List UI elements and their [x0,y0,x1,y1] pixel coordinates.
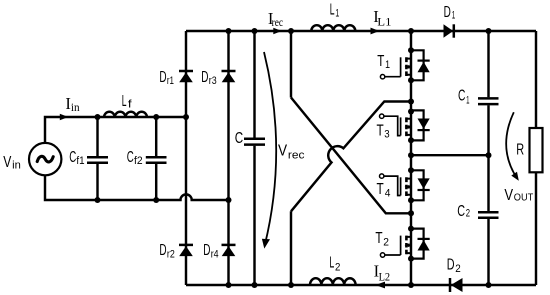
svg-text:r4: r4 [211,249,219,261]
svg-text:2: 2 [335,261,340,273]
svg-text:in: in [12,160,21,172]
svg-text:T: T [377,123,384,140]
svg-text:f1: f1 [76,155,84,167]
svg-text:r2: r2 [167,249,175,261]
svg-text:V: V [3,154,11,171]
svg-text:1: 1 [335,8,339,20]
svg-text:4: 4 [385,187,391,199]
svg-text:L: L [122,93,127,110]
svg-text:T: T [377,181,384,198]
svg-text:1: 1 [466,95,469,107]
svg-text:L1: L1 [377,17,391,29]
svg-text:3: 3 [384,129,389,141]
svg-text:D: D [201,69,208,86]
svg-text:D: D [447,256,455,273]
svg-text:C: C [458,88,465,105]
svg-text:rec: rec [288,149,305,161]
svg-text:f: f [128,98,133,110]
svg-text:D: D [444,4,451,21]
svg-text:T: T [377,53,384,70]
svg-text:R: R [516,142,524,159]
svg-text:r3: r3 [209,75,217,87]
svg-text:2: 2 [455,263,461,275]
svg-text:L: L [330,2,335,19]
svg-text:L2: L2 [379,271,391,283]
svg-text:L: L [329,255,334,272]
svg-text:rec: rec [272,17,283,29]
svg-text:T: T [375,230,382,247]
svg-text:2: 2 [466,208,470,220]
svg-text:C: C [69,149,76,166]
svg-text:r1: r1 [167,75,174,87]
svg-text:C: C [235,130,243,147]
svg-text:V: V [278,143,287,160]
svg-text:D: D [203,242,210,259]
svg-text:in: in [71,102,80,114]
svg-text:OUT: OUT [514,193,534,204]
svg-text:1: 1 [452,9,456,21]
svg-text:1: 1 [385,59,390,71]
svg-text:2: 2 [383,237,389,249]
svg-text:V: V [504,187,513,204]
svg-text:D: D [159,242,166,259]
svg-text:C: C [127,149,134,166]
svg-text:D: D [159,69,166,86]
svg-text:f2: f2 [134,155,143,167]
svg-text:C: C [457,203,465,220]
